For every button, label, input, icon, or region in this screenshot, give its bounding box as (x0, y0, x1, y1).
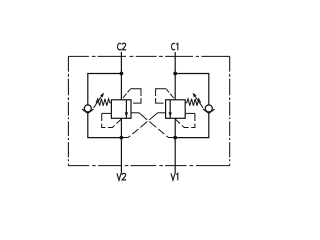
pilot crossing stub from right valve (158, 112, 166, 114)
pilot crossing dashed left-to-right (139, 113, 175, 138)
check valve left: ball (84, 105, 91, 112)
counterbalance valve right: adjust arrow shaft (194, 95, 203, 108)
counterbalance valve left: flow arrowhead (125, 112, 128, 117)
check valve right: seat (203, 109, 214, 113)
pilot line right valve lower loop stub (185, 112, 195, 114)
counterbalance valve right: body (166, 100, 186, 119)
port label C1 (172, 43, 178, 50)
wire C1 vertical (174, 52, 176, 100)
port label C2 (118, 43, 127, 50)
counterbalance valve left: spring (96, 99, 111, 106)
enclosure dash-dot border (68, 55, 229, 57)
port label V2 (117, 173, 126, 180)
check valve left: seat (82, 109, 93, 113)
wire right bypass bottom branch (175, 112, 209, 138)
pilot line left valve lower loop stub (102, 112, 112, 114)
wire left bypass top branch (88, 74, 122, 106)
node junction C1/top (173, 72, 177, 76)
counterbalance valve left: body (111, 100, 131, 119)
counterbalance valve right: adjust arrow head (193, 93, 197, 98)
pilot line left valve lower loop (102, 113, 122, 127)
pilot crossing stub from left valve (131, 112, 139, 114)
wire left bypass bottom branch (88, 112, 122, 138)
node junction V1/bottom (173, 136, 177, 140)
counterbalance valve right: flow line (169, 100, 171, 119)
pilot line right valve lower loop (175, 113, 195, 127)
counterbalance valve left: adjust arrow shaft (94, 95, 103, 108)
pilot line left valve upper loop (123, 89, 130, 98)
counterbalance valve left: flow line (125, 100, 127, 119)
node junction C2/top (120, 72, 124, 76)
check valve right: ball (205, 105, 212, 112)
counterbalance valve left: adjust arrow head (100, 93, 104, 98)
wire V2 vertical (120, 118, 122, 173)
wire V1 vertical (174, 118, 176, 173)
pilot crossing dashed right-to-left (121, 113, 157, 138)
pilot line right valve upper loop (166, 89, 173, 98)
counterbalance valve right: spring (185, 99, 200, 106)
port label V1 (171, 173, 178, 180)
counterbalance valve right: flow arrowhead (169, 112, 172, 117)
node junction V2/bottom (120, 136, 124, 140)
wire C2 vertical (120, 52, 122, 100)
wire right bypass top branch (175, 74, 209, 106)
